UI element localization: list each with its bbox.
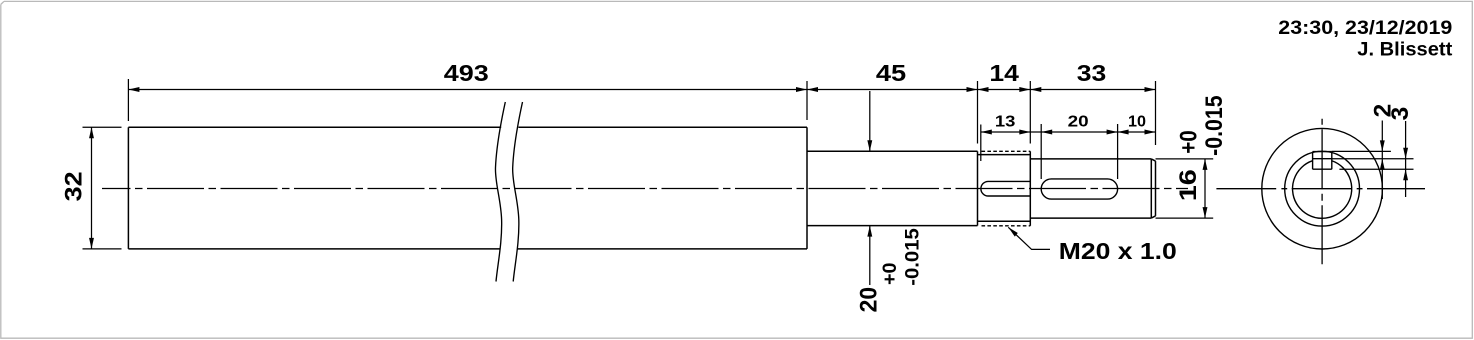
arrows top row — [128, 87, 1155, 92]
shaft section diameter 20 — [807, 151, 978, 225]
shaft centerline — [102, 188, 1188, 190]
break lines — [495, 102, 522, 282]
dimension 16 — [1156, 159, 1214, 218]
svg-text:33: 33 — [1077, 60, 1107, 86]
thread major diameter dashed lines — [982, 151, 1031, 226]
thread section minor diameter lines — [978, 155, 1031, 222]
svg-text:J. Blissett: J. Blissett — [1357, 39, 1453, 61]
svg-text:3: 3 — [1387, 107, 1414, 121]
end view outer circle dia 32 — [1262, 128, 1383, 249]
keyway slot on 16 dia section — [1041, 179, 1117, 199]
slot in threaded section — [981, 179, 1118, 199]
svg-text:23:30, 23/12/2019: 23:30, 23/12/2019 — [1278, 17, 1452, 39]
dimension lines second row — [981, 124, 1156, 179]
end view middle circle dia 20 — [1285, 151, 1360, 226]
diameter 20 dimension leaders — [869, 91, 871, 285]
shaft main body diameter 32 — [128, 127, 1155, 249]
svg-text:10: 10 — [1128, 114, 1146, 131]
M20 leader — [1008, 227, 1050, 249]
svg-text:493: 493 — [444, 60, 489, 86]
end view circles — [1262, 128, 1383, 249]
svg-text:16: 16 — [1175, 169, 1202, 201]
end view centerlines — [1216, 188, 1425, 190]
svg-text:45: 45 — [876, 60, 906, 86]
end view inner circle dia 16 — [1293, 161, 1352, 219]
svg-text:20: 20 — [856, 287, 883, 313]
svg-text:-0.015: -0.015 — [901, 228, 923, 286]
shaft end section diameter 16 — [1030, 159, 1151, 218]
keyway in end view — [1313, 152, 1332, 170]
svg-text:M20 x 1.0: M20 x 1.0 — [1059, 238, 1177, 264]
svg-text:-0.015: -0.015 — [1201, 95, 1228, 156]
dimension lines top row — [128, 79, 1155, 145]
keyway dimensions 2 and 3 — [1332, 121, 1414, 200]
svg-text:20: 20 — [1068, 114, 1089, 131]
svg-text:14: 14 — [989, 60, 1019, 86]
svg-text:32: 32 — [61, 171, 88, 201]
svg-text:+0: +0 — [1176, 130, 1203, 154]
svg-text:13: 13 — [995, 114, 1016, 131]
dimension 32 — [83, 127, 122, 249]
svg-text:+0: +0 — [879, 262, 901, 285]
